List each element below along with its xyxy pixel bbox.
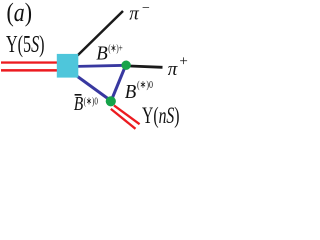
svg-text:(∗)0: (∗)0 xyxy=(137,79,153,91)
svg-text:π: π xyxy=(168,59,178,80)
svg-text:−: − xyxy=(142,1,150,16)
svg-text:(a): (a) xyxy=(7,0,33,27)
svg-text:(∗)0: (∗)0 xyxy=(84,95,99,107)
svg-text:+: + xyxy=(179,53,187,69)
svg-text:Υ(5S): Υ(5S) xyxy=(6,32,45,58)
svg-text:Υ(nS): Υ(nS) xyxy=(142,103,180,129)
svg-text:(∗)+: (∗)+ xyxy=(108,43,123,55)
svg-text:B: B xyxy=(74,93,84,115)
svg-text:B: B xyxy=(125,81,137,103)
svg-text:π: π xyxy=(129,3,139,24)
svg-text:B: B xyxy=(96,42,108,64)
